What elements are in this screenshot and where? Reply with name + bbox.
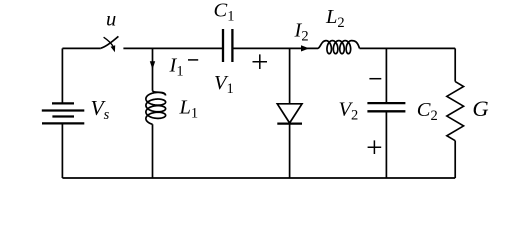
svg-text:G: G: [472, 96, 488, 121]
svg-text:u: u: [106, 9, 116, 31]
